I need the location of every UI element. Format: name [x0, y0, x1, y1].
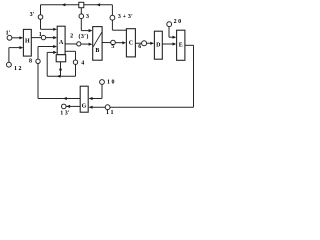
arrow 3 into B: [89, 29, 93, 32]
svg-text:1: 1: [39, 32, 42, 38]
port circle 3: [79, 14, 84, 19]
arrow 6 into D: [150, 42, 154, 45]
port circle 2: [77, 42, 81, 46]
wire H to circle 1 to A: [31, 37, 54, 39]
valve square on top line: [79, 2, 84, 7]
port circle 10: [100, 80, 105, 85]
svg-text:B: B: [95, 48, 99, 54]
arrow 13' from G: [66, 105, 70, 108]
block B: [93, 27, 102, 61]
svg-text:8: 8: [29, 59, 32, 65]
port circle 20: [167, 22, 172, 27]
svg-text:H: H: [25, 38, 30, 44]
svg-text:2 0: 2 0: [174, 19, 182, 25]
wire B to circle 5 to C: [102, 42, 124, 44]
wire drop from valve square to 3: [80, 8, 82, 14]
arrow 4 return leftward: [57, 75, 61, 78]
svg-text:3′: 3′: [30, 12, 35, 18]
wire top header line left segment: [41, 4, 80, 6]
wire E output right and down: [185, 44, 194, 46]
block E: [177, 30, 185, 60]
wire 3 feed into B: [81, 30, 90, 32]
svg-text:D: D: [156, 43, 161, 49]
arrow 1 into A: [53, 36, 57, 39]
wire A loop out to 4: [65, 50, 75, 52]
svg-text:1 0: 1 0: [107, 79, 115, 85]
wire drop to 3': [40, 5, 42, 15]
arrow on top line left: [62, 3, 66, 6]
port circle 1: [41, 35, 45, 39]
arrow 20 into E: [173, 36, 177, 39]
arrow 1' into H: [19, 36, 23, 39]
wire 1' into H: [12, 37, 21, 39]
svg-text:A: A: [59, 40, 64, 46]
wire top header line right segment: [84, 4, 112, 6]
block G: [80, 86, 88, 112]
arrow 2 into B: [89, 43, 93, 46]
svg-text:5: 5: [111, 44, 114, 50]
wire 3+3' feed into C top: [112, 29, 126, 31]
block A bottom section: [56, 55, 65, 62]
block C: [126, 29, 135, 57]
svg-text:6: 6: [138, 44, 141, 50]
svg-text:(3′): (3′): [78, 33, 88, 40]
wire drop to 3+3': [111, 5, 113, 16]
port circle 11: [105, 105, 110, 110]
svg-text:4: 4: [81, 61, 84, 67]
arrow 12 into H: [19, 46, 23, 49]
arrow D into E: [173, 42, 177, 45]
wire recycle riser through 8 into A: [37, 64, 39, 99]
wire G to 13': [67, 105, 81, 107]
svg-text:1 1: 1 1: [106, 110, 114, 116]
svg-text:3 + 3′: 3 + 3′: [118, 14, 133, 20]
arrow 10-line into G: [89, 97, 93, 100]
wire 12 riser into H: [8, 48, 10, 63]
port circle 12: [6, 62, 11, 67]
arrow 10-line toward riser: [63, 97, 67, 100]
wire A to circle 2 to B: [65, 43, 90, 45]
wire 3' feed into A: [41, 28, 55, 30]
port circle 1': [7, 35, 12, 40]
block H: [23, 29, 31, 56]
wire 4 return riser into A: [46, 52, 48, 76]
port circle 3': [38, 15, 43, 20]
block D: [154, 31, 162, 59]
arrow 8 into A: [53, 45, 57, 48]
divider diagonal inside B: [93, 32, 102, 47]
svg-text:E: E: [179, 43, 183, 49]
wire bottom return through 11 into G: [89, 106, 193, 108]
svg-text:2: 2: [70, 33, 73, 39]
wire 20 elbow into E: [168, 27, 170, 38]
wire branch up into A bottom box: [60, 62, 62, 76]
wire C to circle 6 to D: [135, 42, 152, 44]
svg-text:3: 3: [86, 14, 89, 20]
svg-text:C: C: [129, 40, 133, 46]
wire D to E: [162, 43, 174, 45]
arrow branch up into A bottom box: [59, 67, 62, 71]
port circle 4: [73, 60, 77, 64]
svg-text:1 3′: 1 3′: [60, 110, 70, 116]
svg-text:1 2: 1 2: [14, 66, 22, 72]
port circle 3+3': [110, 15, 115, 20]
port circle 6: [142, 41, 147, 46]
wire 4 return left: [47, 75, 75, 77]
arrow on top line right: [96, 3, 100, 6]
wire 10 down and left through G: [101, 84, 103, 98]
port circle 13': [62, 104, 67, 109]
arrow 4 return into A: [53, 51, 57, 54]
arrow 3' into A: [53, 28, 57, 31]
port circle 5: [111, 40, 116, 45]
block A: [57, 26, 65, 55]
svg-text:1′: 1′: [6, 30, 11, 36]
svg-text:G: G: [82, 104, 87, 110]
arrow 11 into G: [89, 106, 93, 109]
arrow 5 into C: [122, 41, 126, 44]
port circle 8: [36, 59, 40, 63]
